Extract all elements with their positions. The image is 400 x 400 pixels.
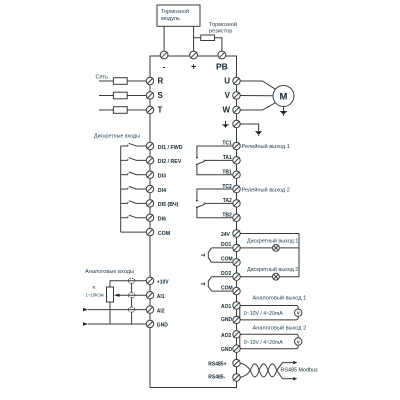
- relay blade K2: [196, 207, 198, 209]
- svg-text:DO1: DO1: [221, 242, 232, 248]
- svg-text:TB1: TB1: [222, 169, 232, 175]
- svg-text:AI2: AI2: [157, 308, 165, 314]
- svg-text:TA1: TA1: [223, 155, 232, 161]
- svg-text:COM: COM: [221, 285, 233, 291]
- wire RS485- into pair: [240, 364, 283, 379]
- svg-text:-: -: [163, 62, 166, 71]
- svg-text:резистор: резистор: [209, 28, 232, 34]
- svg-text:V: V: [225, 91, 231, 100]
- motor ground: [283, 107, 285, 112]
- svg-text:Дискретные входы: Дискретные входы: [94, 133, 140, 139]
- RS485 arrow top: [283, 362, 294, 364]
- svg-text:PB: PB: [216, 62, 228, 72]
- terminal DI1: [146, 142, 153, 149]
- wire AI2: [88, 309, 147, 311]
- terminal TB2: [233, 214, 240, 221]
- terminal AI2: [146, 306, 153, 313]
- wire TA1: [205, 159, 233, 161]
- wire brake module to minus terminal: [163, 26, 165, 51]
- terminal V: [233, 92, 240, 99]
- terminal RS485+: [233, 359, 240, 366]
- brake module box: [157, 5, 200, 26]
- terminal 24V: [233, 230, 240, 237]
- svg-text:DI1 / FWD: DI1 / FWD: [158, 145, 183, 151]
- terminal AI1: [146, 292, 153, 299]
- svg-text:DI2 / REV: DI2 / REV: [158, 159, 182, 165]
- svg-text:1~10kОм: 1~10kОм: [86, 293, 104, 298]
- terminal DI6: [146, 214, 153, 221]
- terminal DI3: [146, 171, 153, 178]
- wire V to motor: [240, 95, 273, 97]
- fuse F1: [113, 78, 127, 85]
- range box AO2: [240, 334, 298, 348]
- contact tip K2: [196, 200, 198, 202]
- terminal TA1: [233, 157, 240, 164]
- svg-text:R: R: [93, 285, 96, 290]
- svg-text:T: T: [158, 106, 163, 115]
- wire brake resistor to PB terminal: [215, 38, 222, 51]
- range box AO1: [240, 306, 298, 320]
- lamp HL2: [273, 273, 280, 280]
- shield loop at y=280.8: [128, 278, 135, 283]
- switch S1: [121, 145, 128, 147]
- terminal GND: [233, 316, 240, 323]
- svg-text:DI3: DI3: [158, 174, 166, 180]
- wire mains phase S: [99, 95, 146, 97]
- svg-text:24V: 24V: [221, 232, 231, 238]
- svg-text:RS485-: RS485-: [208, 375, 225, 381]
- svg-text:AI1: AI1: [157, 294, 165, 300]
- terminal PE: [233, 120, 240, 127]
- svg-text:TC1: TC1: [222, 141, 232, 147]
- terminal T: [146, 106, 153, 113]
- DI common bus wire: [120, 146, 122, 232]
- GND input arrow: [83, 322, 88, 325]
- shield loop at y=295.2: [128, 293, 135, 298]
- ground symbol right: [255, 131, 262, 135]
- wire bus to COM: [121, 231, 147, 233]
- wire TB2 to pivot: [197, 207, 233, 217]
- svg-text:U: U: [224, 77, 230, 86]
- svg-text:R: R: [158, 77, 164, 86]
- terminal AO1: [233, 302, 240, 309]
- svg-text:+10V: +10V: [157, 280, 169, 286]
- voltmeter PV1: [295, 309, 302, 316]
- svg-text:W: W: [222, 106, 230, 115]
- terminal TC1: [233, 142, 240, 149]
- terminal PB: [218, 51, 226, 59]
- svg-text:DO2: DO2: [221, 271, 232, 277]
- wire mains phase T: [99, 109, 146, 111]
- svg-text:Аналоговые входы: Аналоговые входы: [85, 269, 134, 275]
- terminal DO1: [233, 244, 240, 251]
- switch S5: [121, 202, 128, 204]
- terminal RS485-: [233, 374, 240, 381]
- svg-text:Релейный выход 2: Релейный выход 2: [242, 187, 290, 194]
- svg-text:RS485 Modbus: RS485 Modbus: [281, 367, 318, 373]
- svg-text:M: M: [280, 92, 288, 103]
- terminal TA2: [233, 200, 240, 207]
- svg-text:Аналоговый выход 2: Аналоговый выход 2: [253, 325, 307, 332]
- terminal S: [146, 92, 153, 99]
- transistor Q1: [207, 252, 209, 259]
- inverter main body outline: [150, 56, 237, 388]
- svg-text:0~10V / 4~20mA: 0~10V / 4~20mA: [244, 311, 283, 317]
- terminal TB1: [233, 171, 240, 178]
- terminal U: [233, 77, 240, 84]
- pot wiper to AI1: [120, 294, 147, 296]
- svg-text:+: +: [191, 62, 196, 72]
- svg-text:DI5 (ВЧ): DI5 (ВЧ): [158, 202, 179, 208]
- terminal minus: [160, 51, 168, 59]
- svg-text:Релейный выход 1: Релейный выход 1: [242, 143, 290, 150]
- svg-text:Сеть: Сеть: [96, 74, 109, 80]
- terminal R: [146, 77, 153, 84]
- motor M: [273, 86, 294, 107]
- wire TC2 to contact: [197, 189, 233, 200]
- shield drain wire: [131, 283, 133, 293]
- svg-text:RS485+: RS485+: [208, 361, 226, 367]
- terminal COM: [233, 287, 240, 294]
- resistor R brake: [201, 35, 215, 41]
- AI2 input arrow: [83, 308, 88, 311]
- terminal GND: [146, 320, 153, 327]
- wire mains phase R: [99, 80, 146, 82]
- wire plus branch to brake resistor: [194, 37, 201, 39]
- switch S6: [121, 217, 128, 219]
- RS485 arrow bottom: [283, 378, 294, 380]
- svg-text:TB2: TB2: [222, 212, 232, 218]
- shield loop at y=309.6: [128, 307, 135, 312]
- svg-text:TA2: TA2: [223, 198, 232, 204]
- switch S4: [121, 188, 128, 190]
- svg-text:DI4: DI4: [158, 188, 166, 194]
- fuse F2: [113, 92, 127, 99]
- terminal DI2: [146, 157, 153, 164]
- voltmeter PV2: [295, 338, 302, 345]
- svg-text:Аналоговый выход 1: Аналоговый выход 1: [253, 295, 307, 302]
- wire analog GND: [88, 323, 147, 325]
- relay blade K1: [196, 164, 198, 166]
- terminal GND: [233, 345, 240, 352]
- svg-text:DI6: DI6: [158, 217, 166, 223]
- wire TA2: [205, 202, 233, 204]
- svg-text:GND: GND: [221, 347, 233, 353]
- earth symbol at PE terminal: [225, 121, 227, 125]
- wire RS485+ into pair: [240, 363, 283, 377]
- terminal DI4: [146, 185, 153, 192]
- wire 24V rail: [240, 234, 299, 277]
- fuse F3: [113, 107, 127, 114]
- contact tip K1: [196, 157, 198, 159]
- svg-text:S: S: [158, 91, 164, 100]
- wire W to motor: [240, 103, 276, 110]
- svg-text:Дискретный выход 2: Дискретный выход 2: [247, 266, 298, 273]
- terminal COM: [146, 228, 153, 235]
- wire TB1 to pivot: [197, 164, 233, 174]
- terminal plus: [190, 51, 198, 59]
- terminal TC2: [233, 185, 240, 192]
- svg-text:GND: GND: [221, 317, 233, 323]
- svg-text:Тормозной: Тормозной: [161, 8, 189, 15]
- svg-text:Тормозной: Тормозной: [209, 21, 237, 28]
- svg-text:COM: COM: [158, 231, 171, 237]
- lamp HL1: [273, 245, 280, 252]
- terminal DI5: [146, 200, 153, 207]
- terminal AO2: [233, 331, 240, 338]
- svg-text:AO1: AO1: [221, 304, 232, 310]
- wire DO2 to lamp rail: [240, 276, 299, 278]
- wire PE to ground: [240, 124, 259, 131]
- terminal COM: [233, 259, 240, 266]
- wire pot bottom to GND: [109, 302, 111, 324]
- svg-text:COM: COM: [221, 257, 233, 263]
- svg-text:Дискретный выход 1: Дискретный выход 1: [247, 237, 298, 244]
- svg-text:0~10V / 4~20mA: 0~10V / 4~20mA: [244, 340, 283, 346]
- switch S2: [121, 159, 128, 161]
- svg-text:TC2: TC2: [222, 184, 232, 190]
- svg-text:AO2: AO2: [221, 333, 232, 339]
- wire brake module to plus terminal: [193, 26, 195, 51]
- potentiometer R1: [107, 287, 114, 302]
- svg-text:модуль: модуль: [161, 16, 180, 22]
- svg-text:GND: GND: [157, 323, 169, 329]
- terminal W: [233, 106, 240, 113]
- wire TC1 to contact: [197, 146, 233, 157]
- wire U to motor: [240, 81, 276, 89]
- switch S3: [121, 174, 128, 176]
- terminal DO2: [233, 273, 240, 280]
- wire DO1 to lamp rail: [240, 247, 299, 249]
- wire pot top to +10V: [110, 281, 147, 287]
- transistor Q2: [207, 281, 209, 288]
- terminal +10V: [146, 277, 153, 284]
